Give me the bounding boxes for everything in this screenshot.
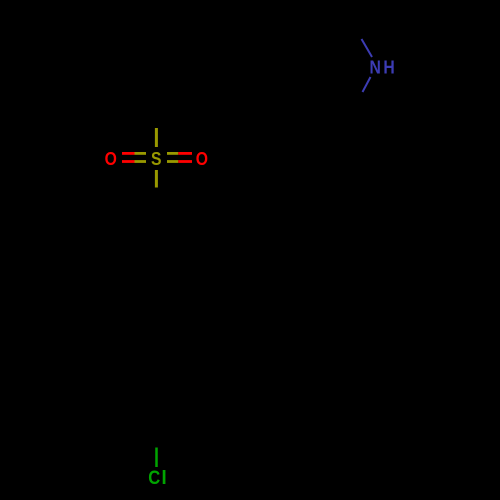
svg-text:H: H — [383, 56, 394, 78]
S=O right double bond, top line olive half — [167, 152, 178, 155]
S=O left double bond, top line red half — [122, 152, 135, 155]
bond C-N lower half, blue near N — [363, 77, 371, 92]
svg-text:O: O — [196, 148, 208, 170]
svg-text:N: N — [370, 56, 381, 78]
bond C-Cl lower half, green near Cl — [155, 448, 158, 468]
svg-text:l: l — [161, 467, 166, 489]
S=O right double bond, bottom line olive half — [167, 160, 178, 163]
bond S-C up half, olive near S — [155, 128, 158, 147]
S=O right double bond, top line red half — [178, 152, 192, 155]
bond C-N upper half (N-methyl), blue near N — [362, 39, 373, 57]
S=O left double bond, bottom line olive half — [135, 160, 147, 163]
svg-text:O: O — [105, 148, 117, 170]
svg-text:C: C — [148, 467, 160, 489]
S=O left double bond, top line olive half — [135, 152, 147, 155]
bond S-C down half, olive near S — [155, 170, 158, 188]
S=O right double bond, bottom line red half — [178, 160, 192, 163]
svg-text:S: S — [151, 148, 161, 170]
S=O left double bond, bottom line red half — [122, 160, 135, 163]
